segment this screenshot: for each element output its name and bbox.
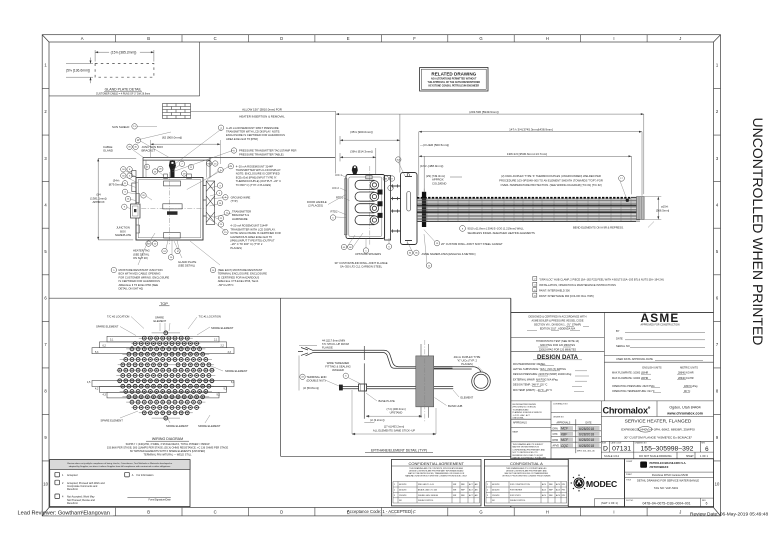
svg-text:12/03/18: 12/03/18	[399, 495, 406, 497]
svg-text:UNCONTROLLED WHEN PRINTED: UNCONTROLLED WHEN PRINTED	[750, 118, 766, 346]
svg-text:ISSUE/CONTROL: ISSUE/CONTROL	[510, 500, 525, 502]
svg-text:6/28/2018: 6/28/2018	[579, 427, 594, 431]
blind flange	[401, 173, 418, 245]
svg-text:SPARE ELEMENT: SPARE ELEMENT	[225, 369, 248, 373]
transmitter bracket column right of box	[206, 181, 214, 225]
related drawing notice box	[420, 68, 488, 92]
svg-text:PETROBRAS: PETROBRAS	[650, 465, 669, 469]
svg-text:PLACES): PLACES)	[230, 246, 242, 250]
svg-text:CLIENT: CLIENT	[626, 461, 633, 463]
svg-text:22062 KPAG FOR 120 MINUTE: 22062 KPAG FOR 120 MINUTES	[539, 348, 577, 351]
svg-text:SEAMLESS INCER–SHEATHED HEATIN: SEAMLESS INCER–SHEATHED HEATING ELEMENTS	[468, 231, 535, 235]
svg-text:Chromalox˚: Chromalox˚	[603, 406, 651, 416]
svg-text:ASME BOILER & PRESSURE VESSEL: ASME BOILER & PRESSURE VESSEL CODE	[531, 320, 583, 323]
junction box inner frame	[138, 180, 201, 238]
grid column ticks top and bottom	[42, 35, 720, 516]
svg-text:C: C	[214, 509, 217, 514]
corner diagonal top-right	[714, 35, 721, 42]
svg-text:BRACKET: BRACKET	[142, 148, 156, 152]
svg-text:DESIGNED & CERTIFIED IN ACCORD: DESIGNED & CERTIFIED IN ACCORDANCE WITH	[529, 316, 587, 319]
balloon 17	[619, 175, 625, 181]
svg-text:BASE PLATE: BASE PLATE	[379, 399, 395, 403]
element u-bend tube 2	[355, 192, 374, 201]
modec logo box	[568, 459, 624, 507]
svg-text:(15⅞ [385.2mm]): (15⅞ [385.2mm])	[111, 51, 137, 55]
junction box centerlines	[132, 172, 207, 245]
svg-text:–L/R 25 +DAY– ACT: –L/R 25 +DAY– ACT	[513, 414, 531, 417]
svg-text:H: H	[546, 36, 549, 41]
svg-text:D: D	[603, 446, 608, 453]
corner diagonal bottom-left	[42, 508, 49, 516]
heating elements note	[460, 226, 466, 232]
ground wire note	[223, 195, 228, 200]
svg-text:DESIGN CONTENTS ARE PROPRIETA: DESIGN CONTENTS ARE PROPRIETARY AND	[506, 469, 547, 472]
svg-text:DETAIL DRAWING FOR SERVICE WAT: DETAIL DRAWING FOR SERVICE WATER BANILE	[637, 478, 699, 482]
svg-text:WIRE THREADED: WIRE THREADED	[327, 361, 350, 365]
vertical drop line from insertion note to enclosure	[334, 112, 336, 174]
svg-text:2: 2	[487, 489, 488, 491]
terminal end double nut note	[300, 374, 305, 379]
svg-text:KEYSTONE CONSUL PETROLEUM ENGI: KEYSTONE CONSUL PETROLEUM ENGINEER	[429, 85, 480, 87]
terminal end dark nut	[339, 385, 343, 391]
confidential 2 revision table	[486, 482, 567, 504]
svg-text:FW: FW	[562, 495, 565, 497]
svg-text:(DOUBLE NUT): (DOUBLE NUT)	[307, 379, 326, 383]
svg-text:12/03/18: 12/03/18	[492, 495, 499, 497]
svg-text:SUN SHIELD: SUN SHIELD	[112, 125, 129, 129]
element detail: upper lead tube	[314, 350, 453, 368]
svg-text:J: J	[679, 36, 681, 41]
svg-text:SPARE ELEMENT: SPARE ELEMENT	[166, 424, 189, 428]
confidential agreement box 2	[485, 459, 569, 506]
junction box enclosure body	[136, 178, 203, 241]
svg-text:(⅛ [3.2mm]): (⅛ [3.2mm])	[370, 418, 385, 422]
svg-text:U/C 2: U/C 2	[332, 186, 339, 190]
transmitter brackets note	[224, 210, 229, 215]
svg-text:T/C #1 LOCATION: T/C #1 LOCATION	[199, 315, 221, 319]
gasket black bar	[422, 192, 426, 227]
svg-text:USED DATA: APPROVAL DATE: USED DATA: APPROVAL DATE	[616, 357, 653, 361]
svg-text:SPARE ELEMENT: SPARE ELEMENT	[211, 326, 234, 330]
designed & certified cell text	[527, 316, 589, 352]
pressure transmitter tag note	[231, 148, 236, 153]
svg-text:TOLERANCE AND: TOLERANCE AND	[513, 408, 530, 411]
svg-text:HYDROSTATIC TEST (SEE NOTE 14): HYDROSTATIC TEST (SEE NOTE 14)	[536, 340, 579, 343]
svg-text:APPROVALS: APPROVALS	[557, 421, 571, 424]
svg-text:RELATED DRAWING: RELATED DRAWING	[431, 72, 476, 77]
svg-text:2: 2	[394, 489, 395, 491]
petrobras client block	[625, 459, 714, 507]
svg-text:U/C 1: U/C 1	[335, 173, 342, 177]
svg-text:–50°C/+55°C: –50°C/+55°C	[218, 283, 234, 287]
svg-text:E: E	[347, 36, 350, 41]
svg-text:TAG NO: VAP–5201: TAG NO: VAP–5201	[654, 486, 679, 490]
transmitter note 3144P RTD	[223, 229, 228, 234]
svg-text:CONFIDENTIAL/PROPRIETARY, AND: CONFIDENTIAL/PROPRIETARY, AND	[513, 448, 546, 451]
part number row labels	[602, 442, 706, 445]
svg-text:1 OF 1: 1 OF 1	[700, 454, 708, 458]
svg-text:EXTERNAL MAWP: N/A PSIG: EXTERNAL MAWP: N/A PSIG N/A kPag	[513, 378, 558, 381]
svg-text:BOX WITH M25 CABLE OPENING: BOX WITH M25 CABLE OPENING	[119, 272, 161, 276]
modec gear emblem	[571, 475, 587, 491]
title block grid lines	[511, 312, 714, 458]
svg-text:ORDER NO: ORDER NO	[553, 417, 564, 419]
svg-text:(SEE DETAIL: (SEE DETAIL	[133, 252, 150, 256]
svg-text:SECTION VIII , DIVISION 1 ,: SECTION VIII , DIVISION 1 , ("U" STAMP)	[534, 324, 581, 327]
element u-bend tube 4	[355, 216, 374, 225]
svg-text:(203.536 [5949.9mm]): (203.536 [5949.9mm])	[469, 110, 499, 114]
svg-text:(⅔ [50.8mm]): (⅔ [50.8mm])	[303, 386, 319, 390]
svg-text:ENCLOSURE IS CERTIFIED FOR HAZ: ENCLOSURE IS CERTIFIED FOR HAZARDOUS	[226, 133, 285, 137]
svg-text:(SHT 1 OF 1): (SHT 1 OF 1)	[601, 501, 618, 505]
svg-text:PRESSURE TRANSMITTER TABLE]: PRESSURE TRANSMITTER TABLE]	[239, 152, 284, 156]
svg-text:DOC NO: DOC NO	[626, 500, 634, 502]
svg-text:BRACKETS &: BRACKETS &	[232, 213, 249, 217]
element terminal block on rod	[359, 384, 367, 391]
svg-text:6: 6	[705, 446, 709, 453]
stage labels on bus bars	[87, 339, 235, 397]
svg-text:adopted by Supplier, nor does: adopted by Supplier, nor does it relieve…	[69, 465, 172, 468]
svg-text:AREA Exe II T6 ECEx IP66, Tamb: AREA Exe II T6 ECEx IP66, Tamb	[218, 279, 259, 283]
svg-text:ISSUED GEN. DESIGN: ISSUED GEN. DESIGN	[418, 495, 439, 497]
right-side instrument stubs	[203, 186, 206, 217]
svg-text:AN A/R, JAN CYC 063: AN A/R, JAN CYC 063	[418, 488, 437, 491]
svg-text:OPERATING PRESSURE: 2623: OPERATING PRESSURE: 2623 PSIG	[612, 385, 655, 388]
svg-text:PAINT: INTERTHANE 990 [COLOR:: PAINT: INTERTHANE 990 [COLOR: RAL 7035]	[539, 294, 594, 298]
svg-text:T/C #2 LOCATION: T/C #2 LOCATION	[107, 315, 129, 319]
leader lines near flange	[336, 162, 435, 264]
svg-text:3: 3	[394, 495, 395, 497]
svg-text:10: 10	[43, 482, 48, 487]
bundle vertical spacer ticks	[427, 198, 631, 221]
svg-text:Review does not justify/in com: Review does not justify/in compliance of…	[67, 462, 172, 465]
heater element bundle	[417, 199, 640, 221]
svg-text:MIN TEMP (MDMT): –20 °F: MIN TEMP (MDMT): –20 °F –29 °C	[513, 389, 552, 392]
svg-text:10: 10	[715, 482, 720, 487]
svg-text:FOR REVIEW: FOR REVIEW	[510, 489, 522, 491]
svg-text:(5⅜ [136.6mm]): (5⅜ [136.6mm])	[66, 69, 90, 73]
balloon callouts around junction box	[121, 124, 224, 260]
svg-text:CQC: CQC	[561, 444, 569, 448]
svg-text:NOTE: ENCLOSURE IS CERTIFIED: NOTE: ENCLOSURE IS CERTIFIED	[236, 172, 280, 176]
buyer shipper review tiny text	[513, 404, 543, 420]
moisture resistant junction box note	[111, 267, 116, 272]
svg-text:Accepted: Accepted	[67, 474, 78, 477]
svg-text:METRIC UNITS: METRIC UNITS	[680, 366, 698, 369]
svg-text:IS CERTIFIED FOR HAZARDOUS: IS CERTIFIED FOR HAZARDOUS	[218, 275, 260, 279]
top view section divider lines	[49, 298, 511, 456]
svg-text:THIS DRAWING AND ITS CONTENTS,: THIS DRAWING AND ITS CONTENTS, SPECIFICA…	[409, 467, 463, 470]
svg-text:(1N¼ [488.9mm]): (1N¼ [488.9mm])	[420, 164, 443, 168]
flange slot	[407, 192, 411, 212]
bolts between plate and flange	[391, 186, 401, 231]
svg-text:DETAIL ON SHT #2): DETAIL ON SHT #2)	[119, 287, 144, 291]
svg-text:GROUND WIRE: GROUND WIRE	[231, 195, 251, 199]
svg-text:MANUFACTURE WITHOUT WRITTEN CO: MANUFACTURE WITHOUT WRITTEN CONSENT FROM…	[405, 475, 467, 478]
svg-text:BEND ELEMENTS ON A 9R & REPRES: BEND ELEMENTS ON A 9R & REPRESS.	[573, 225, 624, 229]
junction box inner plates	[163, 204, 182, 209]
svg-text:F: F	[413, 509, 416, 514]
svg-text:1: 1	[487, 484, 488, 486]
svg-text:FW: FW	[562, 489, 565, 491]
svg-text:NOT TO REPRODUCED. ITS: NOT TO REPRODUCED. ITS	[513, 452, 539, 454]
petrobras logo	[640, 462, 647, 468]
svg-text:THERMOCOUPLE) (OUTPUT –20° C: THERMOCOUPLE) (OUTPUT –20° C	[236, 179, 281, 183]
svg-text:[IP66] (INPUT TYPE RTD) (OUTPU: [IP66] (INPUT TYPE RTD) (OUTPUT	[230, 239, 275, 243]
svg-text:(SEE DETAIL): (SEE DETAIL)	[178, 264, 195, 268]
svg-text:UPSTAND SPACERS: UPSTAND SPACERS	[355, 252, 381, 256]
svg-text:For Information: For Information	[137, 474, 155, 477]
svg-text:(TYP): (TYP)	[231, 199, 238, 203]
svg-text:NO ALTERATIONS PERMITTED WITHO: NO ALTERATIONS PERMITTED WITHOUT	[431, 78, 477, 81]
corner diagonal bottom-right	[714, 508, 721, 516]
element u-bend tube 1	[355, 180, 382, 224]
bundle right end cap	[637, 197, 645, 220]
leader line for heater insertion note	[191, 111, 337, 113]
svg-text:DESIGN TEMP: 248 °F: DESIGN TEMP: 248 °F 120 °C	[513, 384, 548, 387]
svg-text:GLAND: GLAND	[103, 148, 113, 152]
svg-text:PROCEDURE 103–0PS048–000 TO AN: PROCEDURE 103–0PS048–000 TO AN ELEMENT S…	[499, 178, 603, 182]
date highlight cells	[560, 426, 600, 447]
svg-text:6/28/2018: 6/28/2018	[579, 444, 594, 448]
gland plate dimension lines	[66, 50, 154, 83]
dimension line 138x1/3	[419, 156, 632, 194]
inner border frame	[49, 42, 714, 508]
terminal enclosure note	[210, 267, 215, 272]
svg-text:DOOR HANDLE: DOOR HANDLE	[307, 200, 327, 204]
svg-text:APPROX: APPROX	[92, 200, 104, 204]
svg-text:06/10/18: 06/10/18	[399, 489, 406, 491]
svg-text:TITLE: TITLE	[626, 480, 632, 482]
svg-text:HEATER INSERTION & REMOVAL: HEATER INSERTION & REMOVAL	[239, 114, 285, 118]
svg-text:B: B	[147, 36, 150, 41]
svg-text:PLANT: PLANT	[626, 473, 633, 476]
acceptance stamp box	[50, 460, 190, 507]
svg-text:CONFIDENTIAL AGREEMENT: CONFIDENTIAL AGREEMENT	[408, 461, 464, 466]
corner diagonal top-left	[42, 35, 49, 42]
gland plate detail box	[49, 42, 200, 96]
thermocouple stub on enclosure top	[352, 167, 358, 175]
svg-text:DHM: DHM	[553, 439, 558, 442]
svg-text:FW: FW	[562, 484, 565, 486]
svg-text:ENGLISH UNITS: ENGLISH UNITS	[642, 366, 662, 369]
svg-text:(62 [900.0mm]): (62 [900.0mm])	[162, 136, 182, 140]
svg-text:JUNCTION: JUNCTION	[116, 226, 130, 230]
svg-text:(PROCESS) NO. IN EXCEL: (PROCESS) NO. IN EXCEL	[513, 407, 537, 409]
svg-text:Form/Signature/Date: Form/Signature/Date	[149, 499, 172, 502]
svg-text:BLIND HUB: BLIND HUB	[448, 404, 463, 408]
svg-text:KBF: KBF	[561, 432, 568, 436]
svg-text:GLAND PLATE DETAIL: GLAND PLATE DETAIL	[105, 88, 142, 92]
svg-text:0478–04–0075–D1B–0004–001: 0478–04–0075–D1B–0004–001	[642, 501, 690, 505]
svg-text:EDITION 2017 , ADDENDA N/: EDITION 2017 , ADDENDA N/A	[540, 328, 576, 331]
svg-text:DESIGN CONTENTS ARE PROPRIETA: DESIGN CONTENTS ARE PROPRIETARY INFORMAT…	[409, 469, 464, 472]
svg-text:PAINT: INTERSHIELD 300: PAINT: INTERSHIELD 300	[539, 289, 570, 293]
svg-text:Acceptance Code: 1 - ACCEPTED): Acceptance Code: 1 - ACCEPTED)	[347, 509, 413, 514]
svg-text:APVD: APVD	[553, 445, 560, 448]
svg-text:B: B	[147, 509, 150, 514]
svg-text:HARDWARE: HARDWARE	[232, 217, 248, 221]
svg-text:LETHAL SUBSTANCE: YES ( ): LETHAL SUBSTANCE: YES ( ) NO (X) RATING	[513, 368, 566, 371]
svg-text:FOR STUDY: FOR STUDY	[510, 495, 522, 497]
svg-text:MAY NOT BE REPRODUCED OR TRANS: MAY NOT BE REPRODUCED OR TRANSFERRED	[505, 472, 549, 475]
left vertical dimension line	[98, 158, 136, 240]
dimension line 147 3/4	[419, 132, 642, 196]
paint intershield note	[533, 288, 537, 292]
svg-text:3: 3	[487, 495, 488, 497]
svg-text:TRANSMITTER: TRANSMITTER	[232, 209, 251, 213]
gland plate dashed outline	[95, 64, 154, 78]
svg-text:6/28/2018: 6/28/2018	[579, 438, 594, 442]
svg-text:BOX: BOX	[120, 229, 126, 233]
vertical extension lines above flange	[376, 114, 424, 196]
svg-text:EPITHANE/ELEMENT DETAIL (TYP): EPITHANE/ELEMENT DETAIL (TYP)	[371, 448, 427, 452]
svg-text:MFG 155–305–06: MFG 155–305–06	[577, 451, 595, 453]
svg-text:TERMINAL END: TERMINAL END	[307, 375, 327, 379]
svg-text:SPARE: SPARE	[155, 316, 164, 320]
svg-text:MOISTURE RESISTANT JUNCTION: MOISTURE RESISTANT JUNCTION	[119, 268, 163, 272]
svg-text:—(3 LIER [500.5mm]): —(3 LIER [500.5mm])	[420, 143, 449, 147]
svg-text:Review Date: 06-May-2019 05:49: Review Date: 06-May-2019 05:49:48	[690, 511, 768, 517]
svg-text:SPARE ELEMENT: SPARE ELEMENT	[198, 424, 221, 428]
svg-text:40mm DUPLEX TYPE: 40mm DUPLEX TYPE	[454, 355, 481, 359]
svg-text:06/12/18: 06/12/18	[399, 484, 406, 486]
proprietary notice tiny text	[513, 443, 547, 459]
cable glands on left wall	[132, 183, 136, 192]
terminal enclosure housing	[346, 175, 385, 239]
svg-text:D: D	[280, 509, 283, 514]
balloons near flange	[330, 157, 439, 268]
svg-text:SPARE ELEMENT: SPARE ELEMENT	[96, 325, 119, 329]
pressure transmitter on top	[169, 161, 175, 178]
svg-text:3200 PSIG FOR 120 MINUTES: 3200 PSIG FOR 120 MINUTES	[540, 344, 575, 347]
svg-text:Resubmit: Resubmit	[67, 502, 78, 505]
svg-text:MAY NOT BE REPRODUCED, TRANSFE: MAY NOT BE REPRODUCED, TRANSFERRED OR IS…	[408, 472, 465, 475]
svg-text:(36⅛ [914.3mm]): (36⅛ [914.3mm])	[350, 149, 373, 153]
svg-text:FOR CONSTRUCTION: FOR CONSTRUCTION	[510, 484, 530, 486]
svg-text:THIS DRAWING AND ITS SUBJECT: THIS DRAWING AND ITS SUBJECT	[513, 443, 545, 446]
svg-text:SERIAL NO: SERIAL NO	[616, 344, 630, 348]
svg-text:THE APPROVAL OF THE AUTHORIZED: THE APPROVAL OF THE AUTHORIZED/STORED	[428, 81, 481, 84]
svg-text:DESIGN PRESSURE: 2215 PSI: DESIGN PRESSURE: 2215 PSI (MWP) 20400 kP…	[513, 373, 572, 376]
svg-text:06/10/18: 06/10/18	[492, 489, 499, 491]
svg-text:4–20 mA ROSEMOUNT 3144P: 4–20 mA ROSEMOUNT 3144P	[236, 164, 273, 168]
svg-text:[2 PLACES]: [2 PLACES]	[309, 204, 324, 208]
svg-text:(35⅝ [900.0mm]): (35⅝ [900.0mm])	[350, 130, 373, 134]
svg-text:7(2): 7(2)	[396, 159, 400, 161]
bundle bottom edge	[417, 221, 636, 223]
svg-text:CHK: CHK	[553, 433, 558, 436]
svg-text:I: I	[613, 509, 614, 514]
element detail: frayed lead wires	[298, 347, 314, 356]
graylock clamp note	[533, 277, 537, 281]
svg-text:DATE: DATE	[586, 421, 592, 424]
svg-text:IS CERTIFIED FOR HAZARDOUS: IS CERTIFIED FOR HAZARDOUS	[119, 279, 161, 283]
outer border frame	[42, 35, 720, 516]
svg-text:06/12/18: 06/12/18	[492, 484, 499, 486]
svg-text:FOR CUSTOMER WIRING. ENCLOSURE: FOR CUSTOMER WIRING. ENCLOSURE	[119, 275, 170, 279]
sht cell	[594, 499, 624, 507]
svg-text:Resubmit: Resubmit	[67, 488, 78, 491]
svg-text:"GRAYLOC" HUB CLAMP, 2 PIECE [: "GRAYLOC" HUB CLAMP, 2 PIECE [SA–182 F22…	[539, 277, 664, 281]
svg-text:EXP8936/25L(440V) 4–3PH, 60HZ,: EXP8936/25L(440V) 4–3PH, 60HZ, 68936R, 2…	[621, 428, 695, 432]
svg-text:26" CUSTOM RING–JOINT SOFT STE: 26" CUSTOM RING–JOINT SOFT STEEL GASKET	[441, 242, 503, 246]
dimension line (203.536 [5949.9mm])	[336, 114, 644, 194]
svg-text:ALLOW 150" [3810.0mm] FOR: ALLOW 150" [3810.0mm] FOR	[242, 108, 282, 112]
svg-text:ELEMENT: ELEMENT	[154, 319, 167, 323]
svg-text:SHEET: SHEET	[686, 456, 694, 458]
svg-text:TOP: TOP	[160, 302, 168, 306]
confidential 1 revision table	[393, 482, 480, 504]
bundle top dashed tie line	[417, 197, 631, 199]
svg-text:A: A	[81, 36, 84, 41]
svg-text:HAZARDOUS AREA ECEx Ex6 T6: HAZARDOUS AREA ECEx Ex6 T6	[230, 235, 272, 239]
svg-text:SA–350 LF2 CL1 CARBON STEEL: SA–350 LF2 CL1 CARBON STEEL	[340, 265, 383, 269]
upstand plate	[385, 176, 391, 241]
svg-text:TRANSMITTER WITH LCD DISPLAY.: TRANSMITTER WITH LCD DISPLAY.	[230, 227, 275, 231]
svg-text:MCF: MCF	[561, 427, 569, 431]
svg-text:PARTIES IS EXPRESSLY FORBIDDEN: PARTIES IS EXPRESSLY FORBIDDEN.	[513, 456, 547, 459]
svg-text:WASHER: WASHER	[332, 368, 344, 372]
acceptance stamp header band	[50, 460, 190, 470]
svg-text:CUSTOMER CABLE = 4 RUNS OF 3": CUSTOMER CABLE = 4 RUNS OF 3" DIA 26.6mm	[96, 93, 150, 96]
svg-text:C: C	[214, 36, 217, 41]
svg-text:G: G	[479, 509, 482, 514]
svg-text:ALL ELEMENTS SAME STICK–UP: ALL ELEMENTS SAME STICK–UP	[373, 428, 415, 432]
svg-text:147⅞ 3/4 [3745.3mm&438.9mm]: 147⅞ 3/4 [3745.3mm&438.9mm]	[509, 128, 553, 132]
svg-text:MATTER SHOWN HEREON IS: MATTER SHOWN HEREON IS	[513, 446, 540, 449]
bundle dark core lines	[417, 205, 640, 212]
svg-text:(2) K920–DUPLEX TYPE 'K' THERM: (2) K920–DUPLEX TYPE 'K' THERMOCOUPLES (…	[501, 174, 601, 178]
svg-text:www.chromalox.com: www.chromalox.com	[666, 411, 703, 415]
svg-text:RTD1: RTD1	[336, 196, 343, 200]
svg-text:NOTE: ENCLOSURE IS CERTIFIED F: NOTE: ENCLOSURE IS CERTIFIED FOR	[230, 231, 280, 235]
svg-text:Petrobras FPSO Carioca MV30: Petrobras FPSO Carioca MV30	[652, 473, 689, 477]
svg-text:HEATER TAG: HEATER TAG	[133, 249, 150, 253]
leader lines from callouts	[126, 126, 234, 265]
svg-text:INSTALLATION, OPERATION & MAIN: INSTALLATION, OPERATION & MAINTENANCE IN…	[539, 283, 616, 287]
grid column letters top	[43, 36, 720, 514]
svg-text:AREA ECEx Ex6 T6 [IP66]: AREA ECEx Ex6 T6 [IP66]	[226, 137, 258, 141]
svg-text:SCALE 1=12: SCALE 1=12	[604, 454, 620, 458]
svg-text:WIRING DIAGRAM: WIRING DIAGRAM	[152, 437, 183, 441]
svg-text:OPERATING TEMPERATURE: 194: OPERATING TEMPERATURE: 194 °F	[612, 390, 655, 393]
base plate vertical line	[363, 346, 365, 419]
svg-text:MODEC: MODEC	[586, 479, 617, 489]
installation note	[533, 282, 537, 286]
svg-text:ROUTER/WINDOW: DIESEL: ROUTER/WINDOW: DIESEL	[513, 363, 546, 366]
junction box mounting bracket	[143, 157, 335, 177]
svg-text:07131: 07131	[612, 446, 631, 453]
flange small ports	[405, 177, 412, 241]
svg-text:"K" U/Cs (TYP. 2: "K" U/Cs (TYP. 2	[457, 359, 477, 363]
svg-text:155–305998–392: 155–305998–392	[641, 446, 694, 453]
svg-text:1: 1	[394, 484, 395, 486]
grid row ticks left and right	[42, 89, 49, 461]
svg-text:AREA Exe II T6 ECEx IP66 (SEE: AREA Exe II T6 ECEx IP66 (SEE	[119, 283, 159, 287]
acceptance checkboxes	[55, 472, 129, 498]
svg-text:6: 6	[706, 502, 708, 506]
enclosure centerline	[369, 166, 371, 245]
svg-text:H: H	[546, 509, 549, 514]
left wall terminal marks	[136, 194, 140, 234]
upper bus bar rectangles	[92, 336, 234, 398]
svg-text:SPARE ELEMENT: SPARE ELEMENT	[101, 419, 124, 423]
brick insulation hatch symbol	[163, 104, 191, 119]
svg-text:30" CUSTOM BLIND RING–JOINT FL: 30" CUSTOM BLIND RING–JOINT FLANGE	[334, 261, 387, 265]
svg-text:6/28/2018: 6/28/2018	[579, 433, 594, 437]
element tube circle pattern (hexagonal array)	[116, 331, 215, 420]
